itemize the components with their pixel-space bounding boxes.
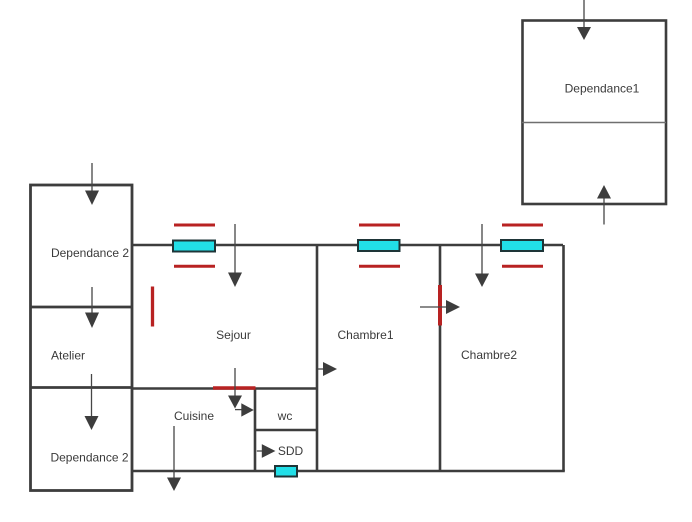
svg-text:Chambre2: Chambre2 bbox=[461, 348, 517, 362]
svg-text:wc: wc bbox=[277, 409, 293, 423]
svg-text:Dependance1: Dependance1 bbox=[565, 82, 640, 96]
svg-text:Cuisine: Cuisine bbox=[174, 409, 214, 423]
svg-text:SDD: SDD bbox=[278, 444, 304, 458]
svg-text:Chambre1: Chambre1 bbox=[337, 328, 393, 342]
svg-text:Sejour: Sejour bbox=[216, 328, 251, 342]
svg-text:Dependance 2: Dependance 2 bbox=[51, 246, 129, 260]
svg-text:Dependance 2: Dependance 2 bbox=[50, 451, 128, 465]
svg-text:Atelier: Atelier bbox=[51, 349, 85, 363]
